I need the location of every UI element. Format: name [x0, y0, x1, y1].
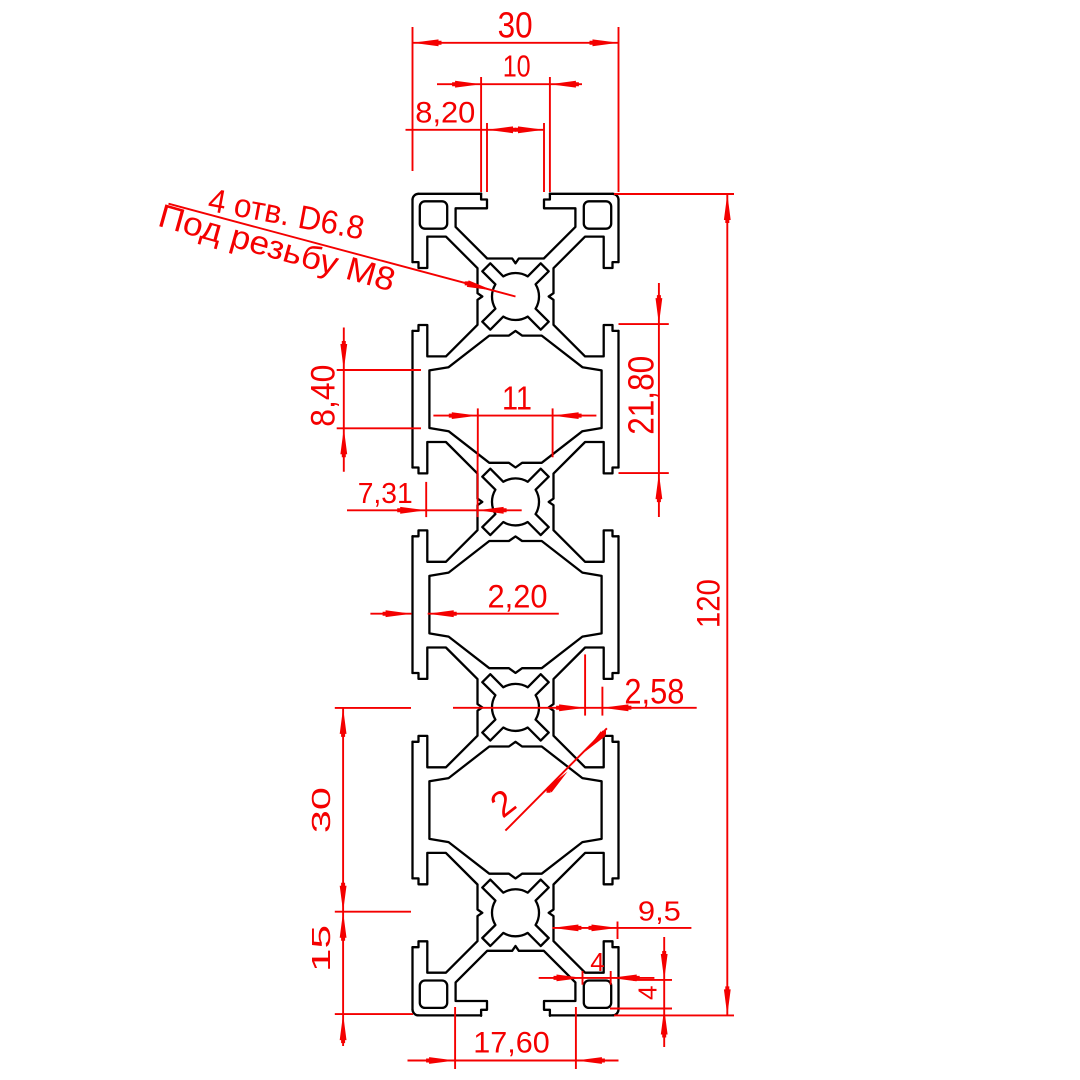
outer left edge seg 4: [411, 742, 413, 879]
svg-text:10: 10: [503, 50, 531, 84]
dim 2,20 line right: [428, 613, 559, 615]
dim 30 top arrow left: [413, 39, 442, 46]
svg-text:9,5: 9,5: [638, 896, 681, 927]
dim 8,40 line: [343, 328, 345, 472]
dim 120 ext top: [614, 193, 734, 195]
dim 17,60 arrow right: [576, 1057, 605, 1064]
svg-text:2,20: 2,20: [488, 578, 548, 615]
dim 10 arrow left: [452, 81, 481, 88]
dim 30 left arrow top: [340, 708, 347, 737]
svg-text:8,20: 8,20: [415, 97, 475, 130]
leader 2 arrow upper: [585, 731, 606, 752]
dim 120 line: [726, 194, 728, 1015]
dim 10 arrow right: [550, 81, 579, 88]
outer right edge seg 3: [617, 536, 619, 673]
dim 7,31 tick left: [425, 482, 427, 517]
dim 4v line: [663, 937, 665, 1047]
dim 21,80 arrow top: [656, 295, 663, 324]
leader 2 arrow lower: [547, 772, 568, 793]
outer corner arc bottom-right: [613, 1009, 619, 1015]
dim 4v ext bottom: [610, 1008, 672, 1010]
dim 120 ext bottom: [614, 1014, 734, 1016]
left T-slot cavity 3: [413, 648, 483, 768]
dim 11 tick right: [552, 408, 554, 457]
outer left edge seg 5: [411, 947, 413, 1009]
dim 8,20 ext left: [486, 123, 488, 192]
outer corner arc bottom-left: [413, 1009, 419, 1015]
dim 8,40 ext top: [337, 369, 421, 371]
dim 4h arrow right: [611, 975, 640, 982]
bottom T-slot cavity: [456, 946, 576, 1016]
dim 8,20 ext right: [543, 123, 545, 192]
top T-slot cavity: [456, 194, 576, 264]
svg-text:4: 4: [590, 947, 604, 977]
dim 2,58 tick right: [601, 687, 603, 716]
dim 4h tick left: [582, 971, 584, 985]
dim 4v arrow top: [661, 951, 668, 980]
dim 30 left arrow bottom: [340, 883, 347, 912]
dim 21,80 ext bottom: [619, 472, 669, 474]
dim 4v ext top: [633, 979, 672, 981]
right T-slot cavity 3: [549, 648, 619, 768]
leader arrow D6.8: [465, 280, 493, 290]
dim 17,60 tick right: [575, 1007, 577, 1069]
outer right edge seg 1: [617, 200, 619, 262]
dim 21,80 ext top: [619, 323, 669, 325]
dim 8,20 arrow right: [515, 126, 544, 133]
dim 2,58 arrow left: [556, 704, 585, 711]
dim 7,31 arrow right: [478, 507, 507, 514]
dim 30 top ext right: [618, 27, 620, 192]
dim 9,5 line: [552, 927, 691, 929]
dim 120 arrow bottom: [724, 986, 731, 1015]
outer right edge seg 2: [617, 331, 619, 468]
dim 9,5 arrow left: [552, 925, 581, 932]
octagon chamber 2: [429, 536, 601, 673]
dim 30 top arrow right: [590, 39, 619, 46]
right T-slot cavity 1: [549, 237, 619, 357]
corner square hole bottom-right: [584, 981, 611, 1008]
dim 17,60 arrow left: [426, 1057, 455, 1064]
outer right edge seg 5: [617, 947, 619, 1009]
outer bottom edge left: [419, 1014, 482, 1016]
svg-text:30: 30: [306, 787, 336, 833]
left T-slot cavity 1: [413, 237, 483, 357]
dim 30 top line: [413, 42, 619, 44]
svg-text:30: 30: [498, 5, 533, 46]
left T-slot cavity 4: [413, 853, 483, 973]
outer left edge seg 3: [411, 536, 413, 673]
octagon chamber 1: [429, 331, 601, 468]
dim 21,80 arrow bottom: [656, 473, 663, 502]
corner square hole top-right: [584, 201, 611, 228]
dim 7,31 line: [347, 509, 522, 511]
dim 2,58 line: [453, 707, 697, 709]
dim 11 line: [433, 415, 596, 417]
dim 8,40 arrow top: [340, 341, 347, 370]
dim 11 arrow right: [553, 412, 582, 419]
dim 30 top ext left: [412, 27, 414, 171]
dim 17,60 line: [408, 1060, 619, 1062]
left T-slot cavity 2: [413, 442, 483, 562]
svg-text:120: 120: [691, 579, 727, 628]
dim 4h arrow left: [554, 975, 583, 982]
dim 15 ext bottom: [335, 1013, 413, 1015]
outer bottom edge right: [550, 1014, 613, 1016]
dim 4v arrow bottom: [661, 1009, 668, 1038]
dim 10 line: [437, 83, 582, 85]
dim 4h line: [539, 977, 655, 979]
outer corner arc top-right: [613, 194, 619, 200]
dim 120 arrow top: [724, 194, 731, 223]
dim 2,20 line left: [370, 613, 411, 615]
svg-text:8,40: 8,40: [305, 365, 343, 427]
X-core bore 1 (D6.8 cross hole): [482, 263, 548, 329]
leader line D6.8: [169, 204, 516, 297]
dim 2,20 arrow left: [383, 610, 412, 617]
dim 7,31 tick right: [477, 455, 479, 517]
dim 30 left ext top: [335, 707, 411, 709]
svg-text:17,60: 17,60: [473, 1027, 550, 1060]
dim 8,40 ext bottom: [337, 427, 421, 429]
octagon chamber 3: [429, 742, 601, 879]
dim 9,5 tick: [617, 922, 619, 940]
dim 15 arrow top: [340, 912, 347, 941]
dim 8,40 arrow bottom: [340, 428, 347, 457]
corner square hole bottom-left: [420, 981, 447, 1008]
dim 10 ext left: [480, 77, 482, 192]
svg-text:21,80: 21,80: [621, 356, 662, 435]
corner square hole top-left: [420, 201, 447, 228]
svg-text:2,58: 2,58: [624, 672, 684, 711]
svg-text:7,31: 7,31: [358, 478, 413, 510]
outer right edge seg 4: [617, 742, 619, 879]
svg-text:4: 4: [632, 986, 662, 1000]
dim 2,20 arrow right: [428, 610, 457, 617]
right T-slot cavity 2: [549, 442, 619, 562]
dim 30-15 left line: [342, 708, 344, 1046]
outer left edge seg 1: [411, 200, 413, 262]
dim 8,20 arrow left: [487, 126, 516, 133]
dim 30 left ext bottom: [335, 911, 411, 913]
dim 4h tick right: [610, 971, 612, 985]
dim 10 ext right: [549, 77, 551, 192]
dim 11 arrow left: [449, 412, 478, 419]
dim 15 arrow bottom: [340, 1014, 347, 1043]
dim 11 tick left: [477, 408, 479, 457]
X-core bore 4 (D6.8 cross hole): [482, 880, 548, 946]
dim 2,58 tick left: [584, 654, 586, 715]
svg-text:11: 11: [502, 379, 532, 416]
dim 9,5 arrow right: [589, 925, 618, 932]
outer corner arc top-left: [413, 194, 419, 200]
dim 21,80 line: [658, 283, 660, 517]
leader 2 line: [505, 728, 607, 830]
dim 17,60 tick left: [454, 1007, 456, 1069]
right T-slot cavity 4: [549, 853, 619, 973]
X-core bore 2 (D6.8 cross hole): [482, 469, 548, 535]
outer top edge right: [550, 193, 613, 195]
dim 2,58 arrow right: [602, 704, 631, 711]
outer left edge seg 2: [411, 331, 413, 468]
dim 8,20 line: [406, 129, 545, 131]
svg-text:15: 15: [306, 925, 336, 972]
X-core bore 3 (D6.8 cross hole): [482, 674, 548, 740]
outer top edge left: [419, 193, 482, 195]
dim 7,31 arrow left: [397, 507, 426, 514]
